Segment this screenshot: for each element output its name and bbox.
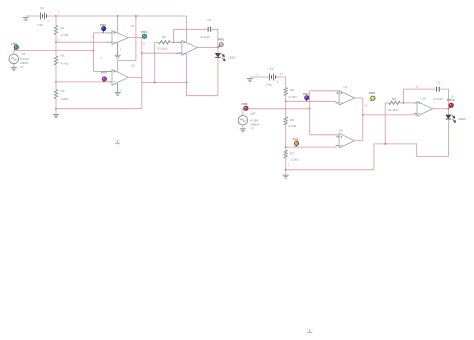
junction node 2 (R1/R2 tap) xyxy=(55,42,56,43)
wire R8 left lead xyxy=(385,102,389,104)
wire R8 left vertical xyxy=(384,103,386,144)
wire U2 output xyxy=(128,76,141,78)
wire into U3 inverting input xyxy=(174,41,182,43)
wire R7 to ground rail xyxy=(285,158,287,170)
svg-text:91.1kΩ: 91.1kΩ xyxy=(388,108,399,112)
resistor R3 xyxy=(54,90,57,99)
resistor R4 xyxy=(159,41,171,44)
svg-text:PR9: PR9 xyxy=(369,91,375,95)
svg-text:7.5V: 7.5V xyxy=(37,23,44,27)
svg-text:4.7kΩ: 4.7kΩ xyxy=(61,62,70,66)
ground symbol (V4) xyxy=(240,129,246,132)
wire U1 V- to ground xyxy=(117,42,119,55)
svg-text:R4: R4 xyxy=(162,35,166,39)
wire node2 down to R2 xyxy=(55,42,57,56)
svg-text:LED2: LED2 xyxy=(458,117,466,121)
wire to U3 non-inverting input xyxy=(142,52,182,54)
junction ground rail xyxy=(285,169,286,170)
wire ground rail right xyxy=(286,169,374,171)
svg-text:2.7kΩ: 2.7kΩ xyxy=(289,95,298,99)
probe PR10 (red) xyxy=(449,105,451,108)
junction output bus / U6 plus input xyxy=(362,114,363,115)
junction source riser xyxy=(93,50,94,51)
svg-text:U6: U6 xyxy=(422,97,426,101)
junction U6 output node xyxy=(448,108,449,109)
battery V3 (7.5V) xyxy=(270,74,276,81)
wire feedback up right xyxy=(403,89,435,103)
ground symbol (battery V1 negative) xyxy=(23,18,29,21)
cursor mark right xyxy=(307,329,312,332)
wire feedback right to output xyxy=(440,89,448,109)
resistor R1 xyxy=(54,26,57,35)
svg-text:R2: R2 xyxy=(61,54,65,58)
probe PR4 (cyan) xyxy=(142,34,146,38)
svg-text:PR3: PR3 xyxy=(101,71,107,75)
wire node13 to U4 inverting input xyxy=(286,101,339,103)
wire node14 down to R7 xyxy=(285,147,287,150)
junction node 3 (R2/R3 tap) xyxy=(55,81,56,82)
svg-text:1.2kΩ: 1.2kΩ xyxy=(61,97,70,101)
svg-text:PR4: PR4 xyxy=(141,30,147,34)
op-amp U2 comparator xyxy=(112,69,128,85)
wire node3 to U2 inverting input xyxy=(56,81,106,83)
junction feedback / U6 inverting input xyxy=(403,102,404,103)
svg-text:PR10: PR10 xyxy=(447,98,455,102)
wire bottom rail to comparator output pulldown xyxy=(56,108,142,110)
svg-text:U1: U1 xyxy=(131,24,135,28)
svg-text:7.5V: 7.5V xyxy=(266,83,273,87)
probe PR2 (blue) xyxy=(102,29,105,33)
svg-text:U8: U8 xyxy=(339,128,343,132)
diode LED1 xyxy=(215,53,220,57)
wire R6 to node 14 xyxy=(285,125,287,147)
svg-text:PR6: PR6 xyxy=(242,102,248,106)
wire LED1 cathode down xyxy=(217,58,219,96)
wire R2 to node 3 xyxy=(55,65,57,82)
battery V1 (VC 7.5V) xyxy=(41,13,47,20)
wire R1 to node 2 xyxy=(55,35,57,43)
svg-text:PR7: PR7 xyxy=(303,92,309,96)
wire ground to battery V1 xyxy=(26,15,41,17)
wire riser to U1 non-inverting input xyxy=(94,32,107,34)
wire V2 bottom to ground xyxy=(13,64,15,68)
ground symbol (battery V3) xyxy=(247,79,253,82)
wire V4 top lead xyxy=(243,109,310,116)
junction U1 V+ tap xyxy=(117,15,118,16)
wire R3 to ground node xyxy=(55,99,57,109)
junction feedback / U3 inverting input xyxy=(173,42,174,43)
AC source V4 xyxy=(238,115,248,125)
svg-text:PR2: PR2 xyxy=(100,23,106,27)
probe PR1 (green) xyxy=(14,47,16,50)
wire into U6 inverting input xyxy=(403,102,417,104)
wire U1 output xyxy=(128,37,146,39)
wire R5 to node 13 xyxy=(285,96,287,102)
junction R4 branch xyxy=(154,82,155,83)
wire ground stem xyxy=(55,109,57,115)
svg-text:R8: R8 xyxy=(392,97,396,101)
junction R8 branch bottom xyxy=(385,143,386,144)
wire node3 down to R3 xyxy=(55,82,57,90)
op-amp U4 comparator xyxy=(339,91,355,106)
wire V2 top lead xyxy=(14,51,94,55)
svg-text:U7: U7 xyxy=(344,85,348,89)
wire feedback right to output xyxy=(212,29,218,47)
op-amp U1 comparator xyxy=(112,31,128,45)
capacitor C1 xyxy=(208,27,211,32)
resistor R5 xyxy=(284,88,287,96)
svg-text:R7: R7 xyxy=(290,151,294,155)
wire U3 V- down xyxy=(186,53,188,83)
svg-text:V3: V3 xyxy=(270,67,274,71)
wire LED2 return loop xyxy=(374,144,449,170)
junction ground node xyxy=(55,108,56,109)
svg-text:C3: C3 xyxy=(437,81,441,85)
wire source riser vertical right xyxy=(309,91,311,135)
wire U2 V+ jog to top rail xyxy=(118,16,136,72)
wire R8 right lead xyxy=(400,102,406,104)
svg-text:LED1: LED1 xyxy=(228,55,236,59)
resistor R7 xyxy=(284,150,287,158)
wire rail to U3 V- node xyxy=(142,81,187,83)
wire U5 output xyxy=(355,140,363,142)
op-amp U5 comparator xyxy=(339,133,355,148)
wire node1 down to R1 xyxy=(55,16,57,26)
junction node 14 (R6/R7 tap) xyxy=(285,146,286,147)
junction node 1 xyxy=(55,15,56,16)
probe PR5 (gray) xyxy=(219,44,222,47)
wire feedback up xyxy=(174,29,207,42)
op-amp U3 xyxy=(182,40,197,55)
wire ground stem R7 xyxy=(285,170,287,175)
svg-text:R3: R3 xyxy=(61,89,65,93)
cursor mark left xyxy=(115,140,120,143)
wire node14 to U5 inverting input xyxy=(286,146,339,148)
wire V- node down to LED return xyxy=(187,82,218,95)
probe PR8 (orange) xyxy=(295,143,298,147)
wire top rail node1 to U3 V+ corner xyxy=(56,15,187,17)
svg-text:R1: R1 xyxy=(61,26,65,30)
junction U3 output node xyxy=(217,47,218,48)
wire riser to U5 non-inverting input xyxy=(310,135,339,137)
probe PR3 (magenta) xyxy=(103,79,106,82)
ground symbol (U2) xyxy=(115,92,121,95)
wire ground to battery V3 xyxy=(250,76,270,78)
svg-text:PR1: PR1 xyxy=(12,42,18,46)
svg-text:2.7kΩ: 2.7kΩ xyxy=(61,33,70,37)
svg-text:PR5: PR5 xyxy=(218,37,224,41)
wire R4 right lead to feedback node xyxy=(170,41,176,43)
op-amp U6 xyxy=(417,101,433,116)
wire battery V3 to R5 xyxy=(276,77,286,88)
svg-text:V4: V4 xyxy=(250,112,254,116)
svg-text:1.2kΩ: 1.2kΩ xyxy=(291,158,300,162)
junction U3 V- rail xyxy=(186,82,187,83)
ground symbol (R3 bottom) xyxy=(53,115,59,118)
wire U2 V- to ground xyxy=(117,83,119,93)
capacitor C3 xyxy=(437,87,440,92)
probe PR7 (violet) xyxy=(305,98,308,102)
junction node 13 (R5/R6 tap) xyxy=(285,101,286,102)
probe PR6 (crimson) xyxy=(244,107,246,110)
svg-text:C1: C1 xyxy=(207,18,211,22)
wire U4 output xyxy=(355,97,363,99)
resistor R8 xyxy=(389,101,401,104)
ground symbol (U1) xyxy=(115,55,121,58)
resistor R2 xyxy=(54,56,57,65)
wire V4 bottom to ground xyxy=(242,125,244,129)
svg-text:U2: U2 xyxy=(131,64,135,68)
svg-text:PR8: PR8 xyxy=(293,138,299,142)
ground symbol (V2) xyxy=(11,68,17,71)
svg-text:4.7kΩ: 4.7kΩ xyxy=(288,124,297,128)
wire output to LED1 xyxy=(217,48,219,54)
svg-text:91.1kΩ: 91.1kΩ xyxy=(158,47,169,51)
junction output bus / U3 plus input xyxy=(141,53,142,54)
junction source riser right xyxy=(309,108,310,109)
svg-text:R6: R6 xyxy=(290,118,294,122)
diode LED2 xyxy=(446,115,451,119)
wire node2 to U1 inverting input xyxy=(56,41,106,43)
wire riser to U2 non-inverting input xyxy=(94,71,107,73)
wire riser to U4 non-inverting input xyxy=(310,91,339,93)
wire U3 output xyxy=(197,47,218,49)
ground symbol (R7) xyxy=(283,175,289,178)
wire to U6 non-inverting input xyxy=(363,114,421,115)
svg-text:(0.1µF): (0.1µF) xyxy=(201,35,211,39)
svg-text:R5: R5 xyxy=(290,88,294,92)
wire R4 left vertical xyxy=(154,42,156,82)
junction top rail / U2 V+ xyxy=(135,15,136,16)
wire comparator output bus vertical xyxy=(141,38,143,109)
wire node13 down to R6 xyxy=(285,101,287,117)
wire battery V1 to node 1 xyxy=(47,15,57,17)
wire R4 left lead xyxy=(155,41,159,43)
wire source riser vertical xyxy=(93,33,95,72)
resistor R6 xyxy=(284,117,287,125)
wire output bus vertical right xyxy=(362,98,364,141)
wire output to LED2 xyxy=(447,109,449,115)
probe PR9 (yellow) xyxy=(371,98,373,101)
svg-text:(0.1µF): (0.1µF) xyxy=(434,97,444,101)
AC source V2 xyxy=(9,54,19,64)
wire U1 V+ riser xyxy=(117,16,119,33)
svg-text:V2: V2 xyxy=(22,52,26,56)
wire U6 output xyxy=(433,108,449,110)
wire LED2 cathode down xyxy=(447,119,449,156)
wire U3 V+ from top rail xyxy=(186,16,188,43)
